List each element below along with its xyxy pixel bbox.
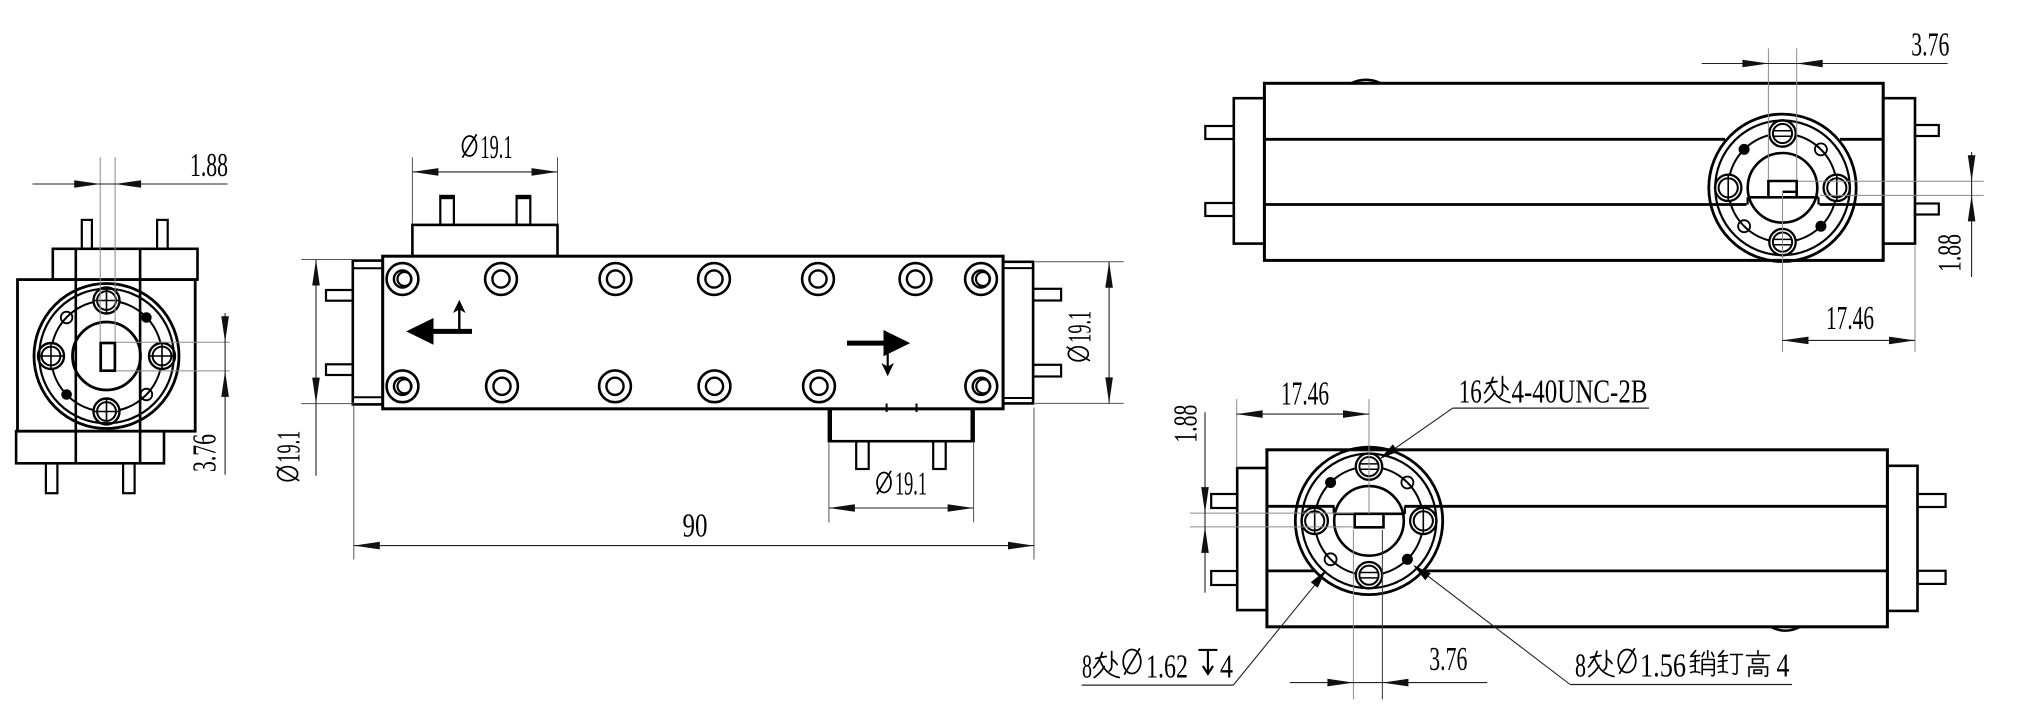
right pin lower bbox=[1915, 204, 1939, 215]
dim 17.46 extension lines bbox=[1782, 192, 1784, 352]
dim 1.88 dimension line bbox=[1204, 412, 1206, 592]
chord line bbox=[1334, 512, 1405, 515]
svg-text:90: 90 bbox=[683, 508, 708, 545]
right flange plate bbox=[1883, 98, 1915, 243]
hole circle upper-left bbox=[61, 312, 73, 324]
svg-text:17.46: 17.46 bbox=[1826, 300, 1874, 337]
svg-text:19.1: 19.1 bbox=[895, 466, 927, 503]
dim 3.76 dimension line bbox=[224, 313, 226, 475]
bottom block pin right bbox=[933, 441, 946, 469]
bottom block inner edges bbox=[828, 410, 832, 441]
screw bottom bbox=[94, 399, 120, 425]
flange second circle bbox=[1302, 454, 1437, 589]
waveguide aperture bbox=[101, 343, 115, 371]
top block pin left bbox=[440, 196, 454, 225]
upper body line bbox=[1264, 138, 1725, 141]
dim 3.76 arrows bbox=[1327, 679, 1353, 687]
flange outer circle bbox=[1709, 114, 1856, 261]
svg-text:4-40UNC-2B: 4-40UNC-2B bbox=[1512, 374, 1648, 411]
left pin upper bbox=[1205, 126, 1234, 139]
pin dot lower-left bbox=[61, 389, 72, 400]
flange inner circle bbox=[1334, 486, 1404, 556]
dim 1.88 extension lines bbox=[1798, 180, 1984, 182]
dim 90 line bbox=[354, 545, 1034, 547]
screw left bbox=[38, 343, 64, 369]
svg-text:16: 16 bbox=[1459, 374, 1482, 411]
flow arrow right group bbox=[847, 330, 910, 376]
top block pin right bbox=[517, 196, 531, 225]
view: main side view bbox=[271, 129, 1124, 560]
left pin lower bbox=[1211, 571, 1237, 585]
hole circle upper-right bbox=[1401, 477, 1413, 489]
svg-text:4: 4 bbox=[1220, 649, 1233, 686]
flange outer circle bbox=[1295, 447, 1442, 594]
dim right diameter 19.1 line bbox=[1108, 262, 1110, 404]
flow arrow left group bbox=[406, 300, 472, 345]
dim top diameter 19.1 arrows bbox=[412, 168, 438, 176]
dim 90 extension lines bbox=[353, 406, 355, 560]
dim 1.88 dimension line bbox=[1971, 152, 1973, 277]
top edge bump bbox=[1351, 80, 1381, 84]
screw right bbox=[1824, 175, 1850, 201]
right flange plate bbox=[1887, 466, 1917, 611]
pin dot lower-right bbox=[1402, 554, 1413, 565]
hole circle lower-left bbox=[1325, 553, 1337, 565]
dim 1.88 arrows bbox=[74, 180, 100, 188]
svg-text:19.1: 19.1 bbox=[1061, 311, 1098, 343]
dim 1.88 extension lines bbox=[99, 157, 101, 342]
svg-text:3.76: 3.76 bbox=[1429, 641, 1467, 678]
svg-text:8: 8 bbox=[1575, 648, 1586, 685]
flange second circle bbox=[1715, 121, 1850, 256]
dim bottom diameter 19.1 line bbox=[829, 507, 974, 509]
bottom mounting tab bbox=[16, 431, 164, 463]
left flange lip lines bbox=[353, 267, 383, 269]
right flange plate bbox=[1003, 262, 1033, 404]
aperture rectangle bbox=[1768, 181, 1796, 197]
chord steps bbox=[1333, 506, 1335, 514]
left flange plate bbox=[1234, 98, 1265, 243]
dim left diameter 19.1 line bbox=[315, 260, 317, 476]
svg-text:8: 8 bbox=[1082, 649, 1092, 686]
callout 16x 4-40UNC-2B leader bbox=[1453, 407, 1649, 409]
dim 17.46 arrows bbox=[1783, 337, 1809, 345]
left flange pin upper bbox=[326, 290, 353, 301]
bolt circle arcs bbox=[120, 302, 160, 343]
lower body line bbox=[1264, 203, 1746, 206]
top pin left bbox=[82, 220, 92, 249]
view: bottom view bbox=[1082, 374, 1946, 700]
bottom connector block bbox=[829, 409, 974, 441]
svg-text:1.88: 1.88 bbox=[1168, 405, 1205, 443]
dim 3.76 extension lines bbox=[116, 341, 230, 343]
dim right diameter 19.1 label bbox=[1061, 311, 1098, 361]
bolt circle arcs bbox=[1382, 468, 1422, 508]
dim 3.76 arrows bbox=[1742, 60, 1768, 68]
dim 17.46 arrows bbox=[1237, 410, 1263, 418]
dim bottom diameter 19.1 arrows bbox=[829, 504, 855, 512]
dim top diameter 19.1 label bbox=[462, 134, 476, 157]
flange second circle bbox=[39, 289, 174, 424]
right flange pin lower bbox=[1033, 365, 1061, 377]
dim bottom diameter 19.1 label bbox=[877, 471, 891, 494]
dim top diameter 19.1 line bbox=[412, 171, 557, 173]
callout 8x dia1.56 pin height4 leader bbox=[1570, 684, 1792, 686]
dim 1.88 extension lines bbox=[1190, 512, 1354, 514]
aperture rectangle bbox=[1355, 514, 1384, 528]
screw right bbox=[149, 343, 175, 369]
bottom pin left bbox=[46, 463, 58, 493]
hole circle upper-right bbox=[1815, 143, 1827, 155]
dim 3.76 extension lines bbox=[1767, 48, 1769, 180]
dim right diameter 19.1 extension lines bbox=[1035, 261, 1124, 263]
right pin lower bbox=[1918, 571, 1946, 584]
flange inner circle bbox=[1748, 153, 1818, 223]
upper body line bbox=[1267, 505, 1335, 508]
top pin right bbox=[157, 220, 168, 249]
right pin upper bbox=[1918, 494, 1946, 507]
left pin lower bbox=[1205, 203, 1234, 216]
lower body line bbox=[1267, 570, 1314, 573]
left pin upper bbox=[1211, 494, 1237, 508]
svg-text:1.88: 1.88 bbox=[190, 147, 228, 184]
flange outer circle bbox=[34, 284, 179, 429]
chord line bbox=[1748, 196, 1819, 199]
dim 1.88 dimension line bbox=[33, 183, 228, 185]
pin dot upper-right bbox=[141, 312, 152, 323]
dim top diameter 19.1 extension lines bbox=[411, 157, 413, 224]
svg-text:1.56: 1.56 bbox=[1640, 648, 1686, 685]
pin dot lower-right bbox=[1815, 221, 1826, 232]
right flange lip lines bbox=[1003, 267, 1033, 269]
svg-text:1.62: 1.62 bbox=[1146, 649, 1188, 686]
dim 3.76 dimension line bbox=[1290, 682, 1487, 684]
svg-text:19.1: 19.1 bbox=[481, 129, 513, 166]
screw right bbox=[1410, 508, 1436, 534]
dim left diameter 19.1 arrows bbox=[312, 260, 320, 286]
dim left diameter 19.1 extension lines bbox=[301, 259, 354, 261]
screw left bbox=[1302, 508, 1328, 534]
left flange pin lower bbox=[326, 364, 353, 375]
vertical edge line left bbox=[75, 249, 78, 463]
top mounting tab bbox=[53, 249, 198, 280]
dim 3.76 arrows bbox=[221, 316, 229, 342]
dim 17.46 extension lines bbox=[1236, 399, 1238, 466]
view: left end view bbox=[16, 147, 230, 493]
hidden line stubs on bottom edge bbox=[886, 404, 888, 413]
body square bbox=[18, 280, 196, 432]
dim left diameter 19.1 label bbox=[271, 431, 308, 481]
screw bottom bbox=[1769, 229, 1795, 255]
svg-text:4: 4 bbox=[1777, 648, 1790, 685]
bottom pin right bbox=[123, 463, 135, 493]
svg-text:17.46: 17.46 bbox=[1281, 376, 1329, 413]
view: top view bbox=[1205, 27, 1983, 353]
screw top bbox=[94, 288, 120, 314]
left flange plate bbox=[353, 261, 383, 405]
dim 3.76 extension lines bbox=[1352, 530, 1354, 699]
svg-text:19.1: 19.1 bbox=[271, 431, 308, 463]
top row screws bbox=[387, 263, 419, 295]
screw top bbox=[1769, 120, 1795, 146]
dim 90 arrows bbox=[354, 542, 380, 550]
bottom edge bump bbox=[1771, 627, 1801, 631]
screw bottom bbox=[1356, 562, 1382, 588]
hole circle lower-left bbox=[1738, 220, 1750, 232]
flange inner circle bbox=[73, 322, 141, 390]
body outline bbox=[1264, 83, 1883, 260]
chord steps bbox=[1746, 197, 1748, 204]
screw left bbox=[1715, 175, 1741, 201]
bottom row screws bbox=[387, 370, 419, 402]
vertical edge line right bbox=[139, 249, 142, 463]
bolt circle arcs bbox=[1796, 135, 1836, 175]
dim 17.46 dimension line bbox=[1237, 413, 1369, 415]
right flange pin upper bbox=[1033, 289, 1061, 301]
main body bbox=[383, 256, 1003, 409]
body outline bbox=[1267, 450, 1888, 627]
dim 1.88 arrows bbox=[1968, 155, 1976, 181]
dim 3.76 dimension line bbox=[1702, 63, 1948, 65]
pin dot upper-left bbox=[1739, 144, 1750, 155]
callout 8x dia1.62 depth4 leader bbox=[1082, 684, 1234, 686]
aperture step line bbox=[1783, 191, 1797, 193]
dim 17.46 dimension line bbox=[1783, 339, 1916, 341]
svg-text:1.88: 1.88 bbox=[1932, 234, 1969, 272]
screw top bbox=[1356, 453, 1382, 479]
dim right diameter 19.1 arrows bbox=[1105, 262, 1113, 288]
svg-text:3.76: 3.76 bbox=[1911, 27, 1949, 64]
bottom block pin left bbox=[856, 441, 869, 469]
svg-text:3.76: 3.76 bbox=[187, 434, 224, 472]
dim 1.88 arrows bbox=[1201, 487, 1209, 513]
left flange plate bbox=[1237, 468, 1267, 610]
hole circle lower-right bbox=[141, 389, 153, 401]
pin dot upper-left bbox=[1325, 477, 1336, 488]
right pin upper bbox=[1915, 125, 1939, 136]
top connector block bbox=[412, 225, 557, 256]
dim bottom diameter 19.1 extension lines bbox=[828, 443, 830, 522]
